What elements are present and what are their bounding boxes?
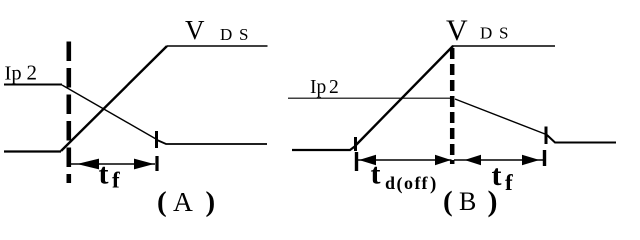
wire: I_D falling edge (B) — [455, 99, 545, 134]
svg-text:(: ( — [397, 174, 403, 195]
label V_DS (A) — [185, 15, 248, 45]
wire: V_DS high level (A) — [167, 45, 268, 47]
tick: start-of-rise marker on waveform (B) — [354, 137, 357, 151]
label (B) caption — [443, 185, 498, 218]
svg-text:f: f — [422, 173, 429, 193]
svg-text:A: A — [173, 186, 193, 217]
dimension tick right of t_f span (B) — [543, 150, 546, 166]
label (A) caption — [157, 186, 215, 218]
wire: I_D low level (A) — [157, 140, 267, 144]
svg-text:D: D — [220, 25, 232, 44]
dimension arrow t_d(off) (B) — [356, 155, 452, 165]
label V_DS (B) — [446, 14, 508, 47]
svg-text:Ip: Ip — [310, 77, 326, 98]
label Ip/2 (B) — [310, 77, 339, 98]
dimension arrow t_f (A) — [71, 159, 155, 170]
svg-text:V: V — [185, 15, 205, 45]
svg-text:Ip: Ip — [5, 63, 22, 85]
label t_f (B) — [492, 159, 514, 195]
svg-text:): ) — [488, 185, 498, 218]
wire: V_DS rising edge (A) — [61, 46, 167, 151]
svg-text:f: f — [112, 168, 120, 193]
label t_d(off) (B) — [371, 158, 437, 195]
wire: V_DS rising edge (B) — [355, 46, 453, 146]
wire: V_DS low level (B) — [292, 146, 356, 151]
svg-text:S: S — [239, 25, 248, 44]
svg-text:d: d — [385, 173, 395, 193]
svg-text:o: o — [404, 173, 413, 193]
svg-text:): ) — [430, 174, 436, 195]
dimension tick right of t_f span (A) — [155, 156, 158, 171]
wire: I_D falling edge (A) — [62, 85, 156, 139]
svg-text:f: f — [505, 170, 513, 195]
tick: end-of-fall marker on waveform (B) — [545, 127, 548, 145]
svg-text:f: f — [415, 173, 422, 193]
dimension tick left of t_d(off) span (B) — [355, 152, 358, 171]
reference dashed line: turn-off instant (A) — [67, 42, 72, 184]
svg-text:(: ( — [157, 186, 167, 218]
dimension arrow t_f (B) — [454, 155, 544, 165]
svg-text:2: 2 — [27, 61, 38, 85]
wire: I_D high level (A) — [4, 84, 62, 86]
svg-text:D: D — [480, 24, 492, 43]
svg-text:t: t — [99, 158, 109, 191]
svg-text:t: t — [371, 158, 381, 191]
wire: I_D low level (B) — [547, 135, 616, 143]
label t_f (A) — [99, 158, 121, 193]
svg-text:V: V — [446, 14, 468, 47]
tick: end-of-fall marker on waveform (A) — [155, 131, 158, 148]
svg-text:): ) — [206, 186, 216, 218]
wire: V_DS low level (A) — [4, 150, 61, 152]
svg-text:(: ( — [443, 186, 453, 218]
svg-text:B: B — [459, 187, 476, 216]
wire: V_DS high level (B) — [452, 45, 555, 47]
wire: I_D high level (B) — [288, 97, 452, 99]
svg-text:2: 2 — [329, 77, 339, 98]
reference dashed line: V_DS peak instant (B) — [450, 48, 455, 164]
svg-text:S: S — [499, 24, 508, 43]
